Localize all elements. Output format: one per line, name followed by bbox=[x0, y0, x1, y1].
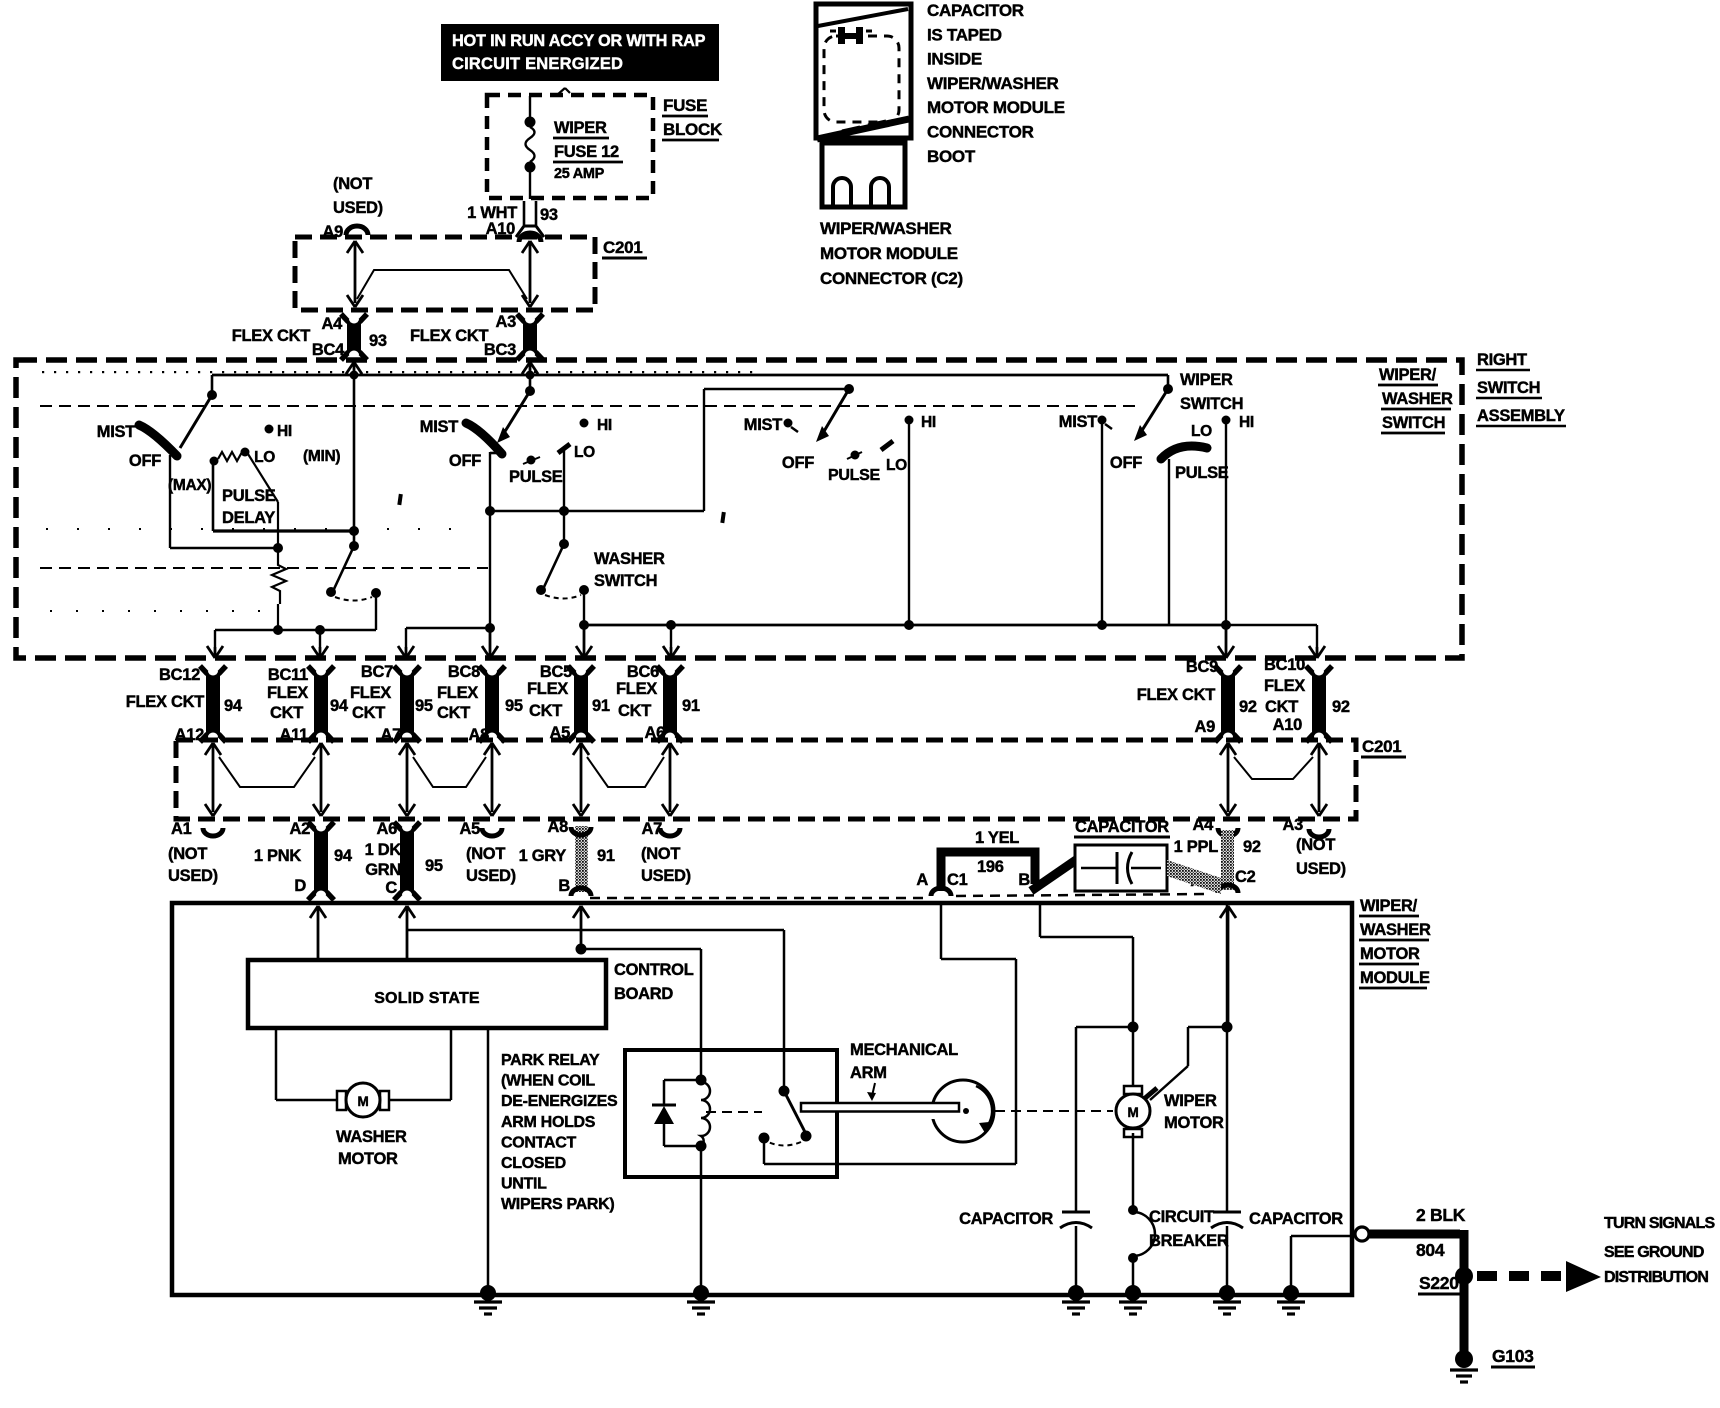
svg-text:FLEX CKT: FLEX CKT bbox=[232, 327, 310, 345]
svg-text:91: 91 bbox=[597, 847, 615, 865]
svg-text:A4: A4 bbox=[1193, 816, 1215, 834]
svg-text:CIRCUIT ENERGIZED: CIRCUIT ENERGIZED bbox=[452, 55, 623, 73]
svg-text:LO: LO bbox=[1191, 423, 1212, 440]
svg-text:WIPER/WASHER: WIPER/WASHER bbox=[927, 74, 1058, 93]
svg-text:CONNECTOR: CONNECTOR bbox=[927, 123, 1034, 142]
svg-text:BC11: BC11 bbox=[268, 666, 308, 684]
svg-text:HI: HI bbox=[921, 414, 936, 431]
svg-text:MOTOR MODULE: MOTOR MODULE bbox=[927, 98, 1065, 117]
svg-text:BC4: BC4 bbox=[312, 341, 345, 359]
svg-text:FLEX: FLEX bbox=[527, 680, 568, 698]
svg-text:WASHER: WASHER bbox=[1360, 921, 1431, 939]
svg-text:A7: A7 bbox=[642, 820, 663, 838]
svg-text:CKT: CKT bbox=[618, 702, 651, 720]
svg-text:FUSE: FUSE bbox=[663, 96, 707, 115]
svg-text:ARM HOLDS: ARM HOLDS bbox=[501, 1114, 596, 1131]
svg-text:(NOT: (NOT bbox=[333, 175, 372, 193]
svg-text:92: 92 bbox=[1332, 698, 1350, 716]
svg-text:USED): USED) bbox=[333, 199, 383, 217]
svg-text:95: 95 bbox=[505, 697, 523, 715]
svg-text:M: M bbox=[358, 1094, 369, 1109]
svg-text:A3: A3 bbox=[1283, 816, 1304, 834]
svg-text:D: D bbox=[294, 877, 306, 895]
svg-text:MECHANICAL: MECHANICAL bbox=[850, 1041, 958, 1059]
svg-text:BC10: BC10 bbox=[1264, 656, 1305, 674]
svg-text:A8: A8 bbox=[548, 818, 569, 836]
svg-text:A3: A3 bbox=[496, 313, 517, 331]
svg-text:(MIN): (MIN) bbox=[303, 448, 340, 465]
svg-text:TURN SIGNALS: TURN SIGNALS bbox=[1604, 1215, 1716, 1232]
svg-text:MIST: MIST bbox=[420, 418, 458, 436]
svg-text:FLEX: FLEX bbox=[350, 684, 391, 702]
svg-text:CKT: CKT bbox=[529, 702, 562, 720]
svg-text:HI: HI bbox=[277, 423, 292, 440]
svg-text:C: C bbox=[385, 879, 397, 897]
svg-text:A10: A10 bbox=[1273, 716, 1302, 734]
svg-text:WIPER: WIPER bbox=[1164, 1092, 1217, 1110]
svg-text:OFF: OFF bbox=[1110, 454, 1142, 472]
svg-text:USED): USED) bbox=[466, 867, 516, 885]
svg-text:A9: A9 bbox=[1195, 718, 1216, 736]
svg-text:G103: G103 bbox=[1492, 1346, 1534, 1366]
svg-text:RIGHT: RIGHT bbox=[1477, 351, 1527, 369]
svg-text:OFF: OFF bbox=[129, 452, 161, 470]
svg-text:BC8: BC8 bbox=[448, 663, 480, 681]
svg-text:CLOSED: CLOSED bbox=[501, 1155, 566, 1172]
svg-text:HI: HI bbox=[597, 417, 612, 434]
svg-text:OFF: OFF bbox=[449, 452, 481, 470]
svg-text:SEE GROUND: SEE GROUND bbox=[1604, 1244, 1704, 1261]
svg-text:BC6: BC6 bbox=[627, 663, 659, 681]
svg-text:SWITCH: SWITCH bbox=[594, 572, 657, 590]
svg-text:C201: C201 bbox=[603, 238, 642, 257]
svg-text:MOTOR: MOTOR bbox=[338, 1150, 398, 1168]
svg-text:92: 92 bbox=[1239, 698, 1257, 716]
svg-text:MIST: MIST bbox=[744, 416, 782, 434]
svg-text:PARK RELAY: PARK RELAY bbox=[501, 1052, 600, 1069]
svg-text:CONTACT: CONTACT bbox=[501, 1134, 576, 1151]
svg-text:CAPACITOR: CAPACITOR bbox=[959, 1210, 1053, 1228]
svg-text:HI: HI bbox=[1239, 414, 1254, 431]
svg-text:CONNECTOR (C2): CONNECTOR (C2) bbox=[820, 269, 963, 288]
svg-text:SWITCH: SWITCH bbox=[1180, 395, 1243, 413]
svg-text:FLEX: FLEX bbox=[616, 680, 657, 698]
svg-text:WIPER: WIPER bbox=[554, 119, 607, 137]
svg-text:BOARD: BOARD bbox=[614, 985, 673, 1003]
svg-text:PULSE: PULSE bbox=[828, 467, 880, 484]
svg-text:DE-ENERGIZES: DE-ENERGIZES bbox=[501, 1093, 618, 1110]
svg-text:804: 804 bbox=[1416, 1240, 1445, 1260]
svg-text:B: B bbox=[1018, 871, 1030, 889]
svg-text:92: 92 bbox=[1243, 838, 1261, 856]
svg-text:(NOT: (NOT bbox=[1296, 836, 1335, 854]
svg-text:HOT IN RUN ACCY OR WITH RAP: HOT IN RUN ACCY OR WITH RAP bbox=[452, 32, 706, 50]
svg-text:91: 91 bbox=[682, 697, 700, 715]
svg-text:WIPER/WASHER: WIPER/WASHER bbox=[820, 219, 951, 238]
svg-text:93: 93 bbox=[369, 332, 387, 350]
svg-text:CKT: CKT bbox=[1265, 698, 1298, 716]
svg-text:SOLID STATE: SOLID STATE bbox=[374, 990, 480, 1007]
svg-text:94: 94 bbox=[334, 847, 353, 865]
svg-text:USED): USED) bbox=[168, 867, 218, 885]
svg-text:1 DK: 1 DK bbox=[365, 841, 402, 859]
svg-text:FUSE 12: FUSE 12 bbox=[554, 143, 619, 161]
svg-text:MOTOR: MOTOR bbox=[1360, 945, 1420, 963]
svg-text:CAPACITOR: CAPACITOR bbox=[927, 1, 1024, 20]
svg-text:1 GRY: 1 GRY bbox=[519, 847, 567, 865]
svg-text:LO: LO bbox=[574, 444, 595, 461]
svg-text:CKT: CKT bbox=[437, 704, 470, 722]
svg-text:FLEX CKT: FLEX CKT bbox=[126, 693, 204, 711]
svg-text:DELAY: DELAY bbox=[222, 509, 275, 527]
svg-text:LO: LO bbox=[254, 449, 275, 466]
svg-text:MOTOR MODULE: MOTOR MODULE bbox=[820, 244, 958, 263]
svg-text:FLEX CKT: FLEX CKT bbox=[1137, 686, 1215, 704]
svg-text:MODULE: MODULE bbox=[1360, 969, 1430, 987]
svg-text:M: M bbox=[1128, 1105, 1139, 1120]
svg-text:B: B bbox=[558, 877, 570, 895]
svg-text:(MAX): (MAX) bbox=[168, 477, 211, 494]
svg-text:1 PNK: 1 PNK bbox=[254, 847, 301, 865]
svg-text:CKT: CKT bbox=[352, 704, 385, 722]
svg-text:MOTOR: MOTOR bbox=[1164, 1114, 1224, 1132]
svg-text:BC5: BC5 bbox=[540, 663, 572, 681]
svg-text:25 AMP: 25 AMP bbox=[554, 166, 605, 182]
svg-text:UNTIL: UNTIL bbox=[501, 1176, 547, 1193]
svg-text:SWITCH: SWITCH bbox=[1477, 379, 1540, 397]
svg-text:BREAKER: BREAKER bbox=[1149, 1232, 1229, 1250]
svg-text:1 PPL: 1 PPL bbox=[1174, 838, 1219, 856]
svg-text:A1: A1 bbox=[171, 820, 192, 838]
svg-text:PULSE: PULSE bbox=[509, 468, 563, 486]
svg-text:ASSEMBLY: ASSEMBLY bbox=[1477, 407, 1565, 425]
svg-text:93: 93 bbox=[540, 206, 558, 224]
svg-text:FLEX: FLEX bbox=[267, 684, 308, 702]
svg-text:IS TAPED: IS TAPED bbox=[927, 25, 1002, 44]
svg-text:OFF: OFF bbox=[782, 454, 814, 472]
svg-text:BC12: BC12 bbox=[159, 666, 200, 684]
svg-text:CONTROL: CONTROL bbox=[614, 961, 694, 979]
svg-text:ARM: ARM bbox=[850, 1064, 887, 1082]
svg-text:BLOCK: BLOCK bbox=[663, 120, 723, 139]
svg-text:SWITCH: SWITCH bbox=[1382, 414, 1445, 432]
svg-text:1 YEL: 1 YEL bbox=[975, 829, 1019, 847]
svg-text:95: 95 bbox=[415, 697, 433, 715]
svg-text:CAPACITOR: CAPACITOR bbox=[1075, 818, 1169, 836]
svg-text:FLEX: FLEX bbox=[437, 684, 478, 702]
svg-text:(NOT: (NOT bbox=[466, 845, 505, 863]
svg-text:91: 91 bbox=[592, 697, 610, 715]
svg-text:MIST: MIST bbox=[1059, 413, 1097, 431]
svg-text:(WHEN COIL: (WHEN COIL bbox=[501, 1073, 595, 1090]
svg-text:DISTRIBUTION: DISTRIBUTION bbox=[1604, 1269, 1708, 1286]
svg-text:BC3: BC3 bbox=[484, 341, 516, 359]
svg-text:(NOT: (NOT bbox=[168, 845, 207, 863]
svg-text:A4: A4 bbox=[322, 315, 344, 333]
svg-text:95: 95 bbox=[425, 857, 443, 875]
svg-text:196: 196 bbox=[977, 858, 1004, 876]
svg-text:WIPER: WIPER bbox=[1180, 371, 1233, 389]
svg-text:USED): USED) bbox=[641, 867, 691, 885]
svg-text:CAPACITOR: CAPACITOR bbox=[1249, 1210, 1343, 1228]
svg-text:WIPER/: WIPER/ bbox=[1379, 366, 1437, 384]
svg-text:WASHER: WASHER bbox=[594, 550, 665, 568]
svg-text:WASHER: WASHER bbox=[1382, 390, 1453, 408]
svg-text:GRN: GRN bbox=[365, 861, 401, 879]
svg-text:BOOT: BOOT bbox=[927, 147, 976, 166]
svg-text:INSIDE: INSIDE bbox=[927, 50, 982, 69]
svg-text:LO: LO bbox=[886, 457, 907, 474]
svg-text:PULSE: PULSE bbox=[1175, 464, 1229, 482]
svg-text:WIPERS PARK): WIPERS PARK) bbox=[501, 1196, 614, 1213]
svg-text:94: 94 bbox=[224, 697, 243, 715]
svg-text:C1: C1 bbox=[947, 871, 968, 889]
svg-text:MIST: MIST bbox=[97, 423, 135, 441]
svg-text:WIPER/: WIPER/ bbox=[1360, 897, 1418, 915]
svg-text:(NOT: (NOT bbox=[641, 845, 680, 863]
svg-text:C2: C2 bbox=[1235, 868, 1256, 886]
svg-text:FLEX CKT: FLEX CKT bbox=[410, 327, 488, 345]
svg-text:USED): USED) bbox=[1296, 860, 1346, 878]
svg-text:C201: C201 bbox=[1362, 737, 1401, 756]
svg-text:CKT: CKT bbox=[270, 704, 303, 722]
svg-text:BC9: BC9 bbox=[1186, 658, 1218, 676]
svg-text:S220: S220 bbox=[1419, 1273, 1459, 1293]
svg-text:CIRCUIT: CIRCUIT bbox=[1149, 1208, 1214, 1226]
svg-text:A5: A5 bbox=[460, 820, 481, 838]
svg-text:BC7: BC7 bbox=[361, 663, 393, 681]
svg-text:2 BLK: 2 BLK bbox=[1416, 1205, 1466, 1225]
svg-text:A: A bbox=[916, 871, 928, 889]
svg-text:A6: A6 bbox=[377, 820, 398, 838]
svg-text:94: 94 bbox=[330, 697, 349, 715]
svg-text:A2: A2 bbox=[290, 820, 311, 838]
svg-text:FLEX: FLEX bbox=[1264, 677, 1305, 695]
svg-text:PULSE: PULSE bbox=[222, 487, 276, 505]
svg-text:WASHER: WASHER bbox=[336, 1128, 407, 1146]
